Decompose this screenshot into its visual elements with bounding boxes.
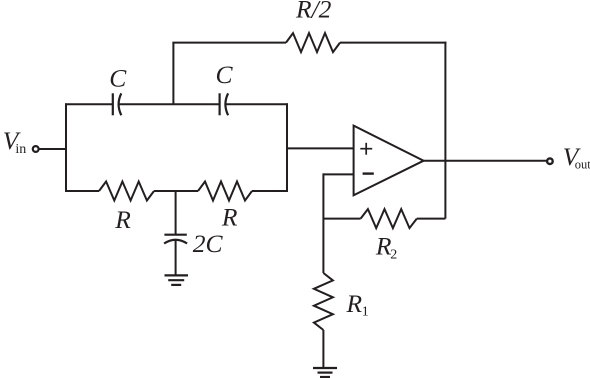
svg-text:C: C (109, 64, 127, 93)
svg-text:2: 2 (390, 248, 397, 263)
svg-text:2C: 2C (193, 229, 224, 258)
svg-text:in: in (15, 142, 26, 157)
svg-text:C: C (216, 60, 234, 89)
svg-text:R/2: R/2 (295, 0, 332, 24)
svg-text:R: R (346, 289, 363, 318)
svg-text:R: R (114, 205, 131, 234)
svg-text:1: 1 (362, 305, 369, 320)
svg-text:R: R (221, 202, 238, 231)
svg-text:out: out (575, 157, 590, 171)
